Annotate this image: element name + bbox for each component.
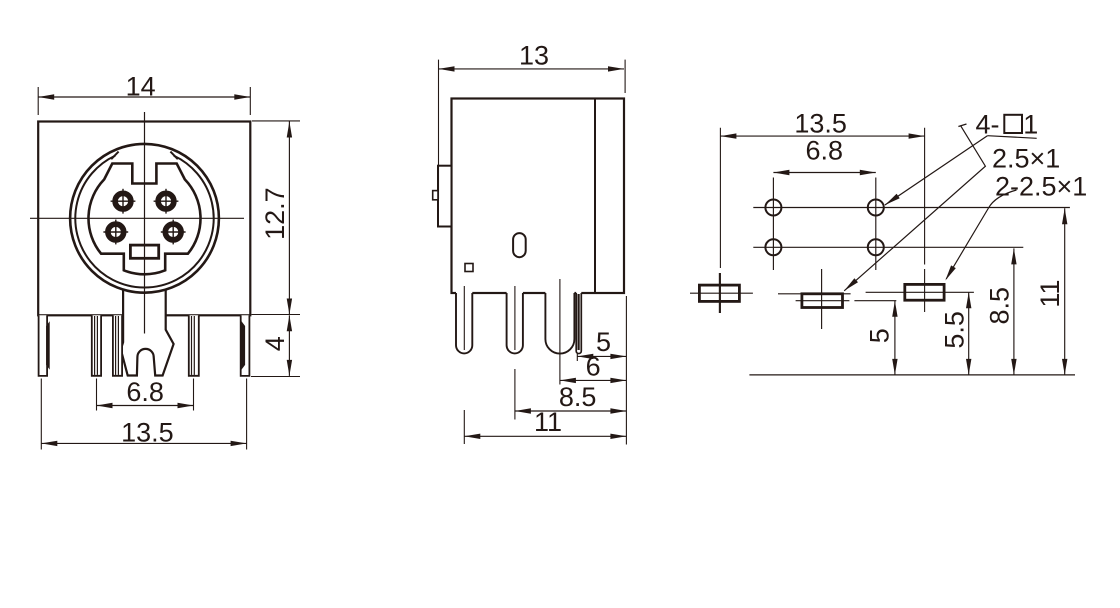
dimension 13 side width xyxy=(439,40,626,199)
leader to center slot xyxy=(844,124,985,291)
svg-text:4-: 4- xyxy=(976,109,1000,139)
side view: leg 3 xyxy=(545,291,574,354)
label 2.5x1 xyxy=(992,144,1060,174)
dimension 8.5 side xyxy=(515,382,627,414)
dimension 8.5 footprint xyxy=(985,248,1017,375)
dimension 5 side xyxy=(577,327,626,359)
label 2-2.5x1 xyxy=(995,172,1087,202)
dimension 11 side xyxy=(464,407,626,439)
svg-text:6: 6 xyxy=(586,351,601,381)
dimension 5 footprint xyxy=(854,301,897,375)
svg-text:13.5: 13.5 xyxy=(794,109,847,139)
svg-text:5.5: 5.5 xyxy=(940,311,970,349)
footprint: pin hole 4 xyxy=(765,200,781,216)
front view: left mounting leg xyxy=(39,315,50,376)
svg-text:6.8: 6.8 xyxy=(806,136,844,166)
label 4-square-1 xyxy=(976,109,1039,139)
svg-text:8.5: 8.5 xyxy=(559,382,597,412)
front view: pin 3 xyxy=(154,189,179,214)
front view: ring notch right xyxy=(170,152,177,160)
front view: pin leg 3 xyxy=(189,315,199,376)
footprint: pin hole 1 xyxy=(868,239,884,255)
footprint: hole row lines xyxy=(753,208,1070,248)
front view: key slot xyxy=(130,245,158,258)
side view: body xyxy=(452,99,625,294)
side view: leg 4 thin xyxy=(576,291,581,354)
svg-text:8.5: 8.5 xyxy=(985,287,1015,325)
front view: inner shield ring xyxy=(75,152,213,288)
front view: right mounting leg xyxy=(241,315,250,376)
leader to pin hole 3 xyxy=(885,136,988,205)
front view: vertical centerline xyxy=(144,112,146,334)
dimension 13.5 footprint xyxy=(720,109,924,314)
svg-text:2.5×1: 2.5×1 xyxy=(992,144,1060,174)
dimension 14 top width xyxy=(38,71,250,115)
front view: outer shield ring xyxy=(70,144,219,293)
footprint: left shield slot xyxy=(690,273,753,313)
front view: pin 4 xyxy=(111,189,136,214)
side view: shield tab xyxy=(433,166,452,227)
svg-text:5: 5 xyxy=(864,328,894,343)
svg-text:1: 1 xyxy=(1023,109,1038,139)
front view: pin 2 xyxy=(103,220,128,245)
footprint: board edge baseline xyxy=(749,374,1075,376)
side view: oval slot xyxy=(513,233,526,257)
front view: socket face outline xyxy=(88,164,200,275)
side view: square hole xyxy=(465,264,473,272)
side view: leg 2 xyxy=(507,291,523,353)
footprint: right shield slot xyxy=(866,284,974,300)
dimension 6.8 pin spacing xyxy=(97,377,194,411)
dimension 12.7 body height xyxy=(252,121,301,315)
front view: pin leg 1 xyxy=(92,315,101,376)
svg-text:13.5: 13.5 xyxy=(121,418,174,448)
svg-text:14: 14 xyxy=(126,71,156,101)
dimension 5.5 footprint xyxy=(940,292,972,375)
leader to right slot xyxy=(945,190,1016,281)
svg-text:12.7: 12.7 xyxy=(260,187,290,240)
svg-text:11: 11 xyxy=(534,407,562,437)
front view: pin 1 xyxy=(161,220,186,245)
front view: solder fork lug xyxy=(121,285,174,376)
side view: leg centerlines xyxy=(464,279,626,445)
svg-text:13: 13 xyxy=(519,40,549,70)
svg-text:6.8: 6.8 xyxy=(126,377,164,407)
dimension 6.8 footprint xyxy=(773,136,875,176)
dimension 4 leg height xyxy=(251,315,300,376)
front view: pin leg 2 xyxy=(113,315,122,376)
dimension 13.5 leg span xyxy=(41,379,246,450)
footprint: pin hole 2 xyxy=(765,239,781,255)
front view: horizontal centerline xyxy=(30,217,244,219)
footprint: hole column lines xyxy=(773,178,875,271)
footprint: center fork slot xyxy=(778,269,851,329)
front view: ring notch left xyxy=(111,152,118,160)
svg-text:2-2.5×1: 2-2.5×1 xyxy=(995,172,1087,202)
side view: leg 1 xyxy=(456,291,472,353)
svg-text:11: 11 xyxy=(1035,280,1065,308)
footprint: pin hole 3 xyxy=(868,200,884,216)
dimension 11 footprint xyxy=(1035,208,1067,375)
svg-text:4: 4 xyxy=(260,336,290,351)
dimension 6 side xyxy=(560,351,627,383)
front view: connector body xyxy=(38,122,250,316)
